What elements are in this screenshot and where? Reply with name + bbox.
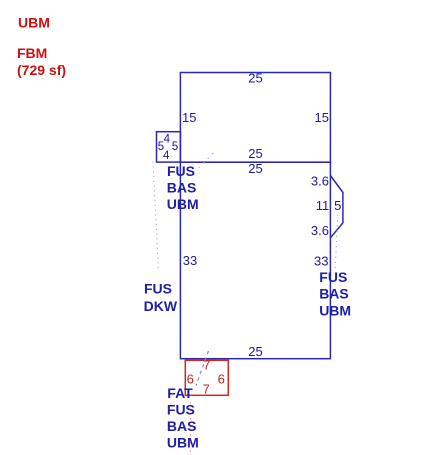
dashed guide diagonal at red box xyxy=(196,351,209,386)
svg-text:25: 25 xyxy=(248,161,262,176)
svg-text:25: 25 xyxy=(248,71,262,86)
svg-text:25: 25 xyxy=(248,146,262,161)
svg-text:6: 6 xyxy=(218,372,225,387)
top rectangle outline (upper floor area) xyxy=(180,73,330,163)
svg-text:4: 4 xyxy=(163,150,170,162)
svg-text:33: 33 xyxy=(314,253,328,268)
svg-text:UBM: UBM xyxy=(167,435,199,451)
small box (left bump-out) xyxy=(157,132,181,162)
svg-text:(729 sf): (729 sf) xyxy=(17,62,66,78)
svg-text:FUS: FUS xyxy=(167,163,195,179)
red box (patio/FAT area) xyxy=(185,360,228,395)
svg-text:3.6: 3.6 xyxy=(311,174,329,189)
bay window (right side) xyxy=(330,176,343,238)
dotted guide diagonal near upper FUS xyxy=(199,153,215,169)
svg-text:3.6: 3.6 xyxy=(311,223,329,238)
svg-text:FUS: FUS xyxy=(167,402,195,418)
svg-text:5: 5 xyxy=(334,198,341,213)
svg-text:15: 15 xyxy=(182,110,196,125)
svg-text:BAS: BAS xyxy=(167,180,197,196)
svg-text:15: 15 xyxy=(315,110,329,125)
svg-text:BAS: BAS xyxy=(319,286,349,302)
main rectangle outline (lower floor area) xyxy=(180,162,330,359)
svg-text:BAS: BAS xyxy=(167,418,197,434)
svg-text:25: 25 xyxy=(248,344,262,359)
svg-text:7: 7 xyxy=(203,381,210,396)
svg-text:5: 5 xyxy=(172,141,178,153)
svg-text:UBM: UBM xyxy=(18,15,50,31)
svg-text:7: 7 xyxy=(203,358,210,373)
dotted guide line right vertical (below bay) xyxy=(335,215,338,269)
svg-text:FUS: FUS xyxy=(144,281,172,297)
dotted guide line red vertical below red box xyxy=(190,394,192,453)
svg-text:UBM: UBM xyxy=(167,196,199,212)
svg-text:4: 4 xyxy=(164,133,171,145)
svg-text:FBM: FBM xyxy=(17,45,47,61)
svg-text:33: 33 xyxy=(183,253,197,268)
svg-text:11: 11 xyxy=(316,198,330,213)
svg-text:UBM: UBM xyxy=(319,302,351,318)
dotted guide line left vertical xyxy=(153,162,159,273)
svg-text:FUS: FUS xyxy=(319,269,347,285)
svg-text:FAT: FAT xyxy=(167,385,193,401)
svg-text:DKW: DKW xyxy=(144,298,178,314)
